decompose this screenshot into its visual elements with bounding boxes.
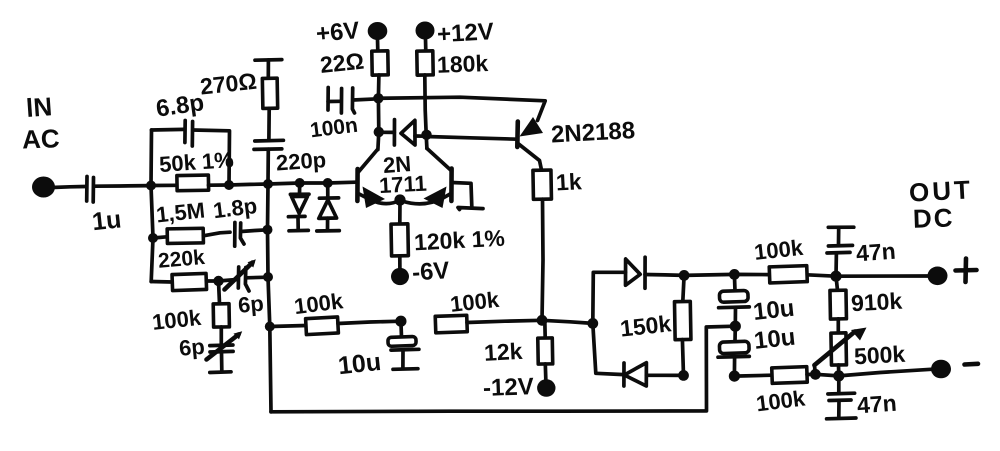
node Y (47n bottom junction) [833,370,844,381]
terminal OUT - [931,360,951,379]
capacitor C 47n (bottom) [827,376,856,419]
node R (150k top) [679,270,690,281]
svg-text:220p: 220p [275,147,327,175]
svg-text:1u: 1u [91,205,123,236]
svg-text:10u: 10u [337,348,383,380]
trimmer capacitor C 6p (lower, to ground) [207,331,243,372]
wire bottom rail [271,326,735,412]
node Q (rectifier branch point) [587,318,598,329]
node O (10u top) [395,316,406,327]
svg-text:120k 1%: 120k 1% [413,225,505,256]
wire top rail to 2N2188 emitter corner [378,97,545,120]
svg-text:100n: 100n [309,114,359,143]
resistor R 180k [417,39,433,135]
input terminal (IN AC) [32,177,55,198]
wire bottom row to minus terminal [815,369,931,376]
capacitor C 1.8p [235,223,268,247]
wire 22ohm node down to collector junction [376,98,381,149]
node V (caps bottom) [729,371,740,382]
svg-text:47n: 47n [856,390,897,419]
node A (input junction) [146,181,156,191]
node I (clamp diode 2 top) [323,178,333,188]
resistor R 100k (output bottom) [734,367,815,384]
transistor Q3 2N2188 [517,117,543,170]
resistor R 100k (mid row right) [435,315,542,333]
svg-text:100k: 100k [449,287,501,317]
node H (clamp diode 1 top) [295,178,305,188]
wire top row rectifier to output [684,274,928,276]
resistor R 1k [533,170,552,320]
diode D4 (top rectifier, pointing right) [626,257,685,288]
svg-text:1,5M: 1,5M [155,197,206,227]
terminal +6V [368,22,388,40]
svg-text:500k: 500k [853,341,906,370]
svg-text:1k: 1k [555,168,582,195]
node J (22ohm bottom / 100n) [373,93,383,103]
node P (1k bottom on mid row) [537,315,548,326]
wire node Q up to top diode row [593,272,626,323]
transistor Q1 2N1711 (left half) [357,150,399,208]
svg-text:100k: 100k [151,305,203,335]
ground (right base) [458,208,483,210]
diode D2 clamp (cathode up) [317,183,340,231]
capacitor C 220p [254,140,283,184]
node D (1.5M left) [148,233,158,243]
wire input to C 1u [52,187,85,188]
svg-text:47n: 47n [855,238,896,267]
wire node Q down to bottom diode row [593,323,624,374]
svg-text:10u: 10u [753,324,797,355]
diode D1 clamp (anode up) [288,183,309,231]
terminal +12V [416,22,435,40]
resistor R 50k [151,175,229,191]
capacitor C 10u (upper right) [719,274,750,326]
svg-text:12k: 12k [483,338,523,366]
resistor R 220k [151,273,218,290]
svg-text:220k: 220k [157,246,206,273]
svg-text:AC: AC [22,123,61,154]
node L (diode right, on 180k line) [421,130,431,140]
terminal -12V [537,379,555,397]
svg-text:100k: 100k [755,385,807,416]
wire node P to node Q [542,320,593,323]
diode D3 (between bases, cathode left) [379,120,427,145]
wire node L down to right collector [424,135,428,149]
trimmer capacitor C 6p (upper) [219,259,269,291]
svg-text:DC: DC [912,202,955,233]
capacitor C 47n (top) [827,227,854,276]
transistor Q2 2N1711 (right half) [402,148,452,208]
svg-text:1.8p: 1.8p [212,193,259,223]
resistor R 100k (mid row left) [270,317,401,335]
svg-text:-6V: -6V [411,257,450,287]
label + (output) [956,259,977,283]
svg-text:2N2188: 2N2188 [550,117,635,148]
resistor R 150k [674,275,690,375]
node K (diode left, on 22ohm line) [374,127,384,137]
capacitor C 100n [328,88,378,114]
resistor R 1.5M [153,228,230,243]
svg-text:1711: 1711 [378,171,427,198]
label - (output) [965,361,979,366]
svg-text:-12V: -12V [483,373,535,402]
svg-text:100k: 100k [293,288,345,319]
resistor R 22ohm [372,39,388,98]
capacitor C 10u (lower right) [718,326,749,376]
wire left ladder vertical [151,130,153,282]
node X (pot wiper on bottom row) [810,369,821,380]
svg-text:+6V: +6V [315,17,361,48]
node E (1.8p right on vertical) [263,225,273,235]
svg-text:180k: 180k [437,50,489,78]
diode D5 (bottom rectifier, pointing left) [624,363,684,386]
wire node B to node C [229,184,268,185]
node C (main junction below 220p) [263,179,273,189]
resistor R 270 (antenna branch) [255,60,282,139]
resistor R 12k [538,320,553,379]
node B (50k right) [224,180,234,190]
terminal OUT + [928,267,948,286]
node F (220k right) [213,276,223,286]
svg-text:150k: 150k [619,310,673,341]
svg-text:22Ω: 22Ω [319,48,366,78]
svg-text:lN: lN [25,91,53,123]
wire feedback vertical (main node down to bottom rail) [268,184,272,412]
wire 6.8p top rail [152,129,230,185]
svg-text:50k 1%: 50k 1% [158,147,234,177]
resistor R 100k (vertical, left) [213,304,229,345]
wire 220k node down to 100k [219,281,220,304]
wire right base to ground [452,183,472,207]
svg-text:6p: 6p [178,334,206,361]
node S (150k bottom) [678,370,689,381]
node T (caps top) [729,269,740,280]
resistor R 100k (output top) [769,266,807,283]
node U (caps middle) [730,321,741,332]
capacitor C 10u (mid, to ground) [388,321,419,369]
capacitor C 6.8p [185,121,193,147]
node N (feedback vertical / mid row) [265,322,275,332]
wire node L to 2N2188 base [427,137,518,140]
resistor R 120k 1% [391,200,408,269]
node M (common emitters) [394,194,405,205]
svg-text:6.8p: 6.8p [154,89,205,122]
node W (47n top junction) [830,271,841,282]
svg-text:270Ω: 270Ω [199,68,258,100]
node G (trimmer right on vertical) [263,272,273,282]
svg-text:100k: 100k [753,235,805,265]
svg-text:910k: 910k [850,288,903,317]
resistor R 910k [830,276,846,333]
potentiometer R 500k [814,328,866,377]
svg-text:+12V: +12V [436,18,494,48]
svg-text:6p: 6p [237,291,265,318]
wire main node C to transistor base [268,182,356,184]
svg-text:10u: 10u [752,295,796,326]
capacitor C 1u [87,177,150,203]
terminal -6V [391,268,409,285]
